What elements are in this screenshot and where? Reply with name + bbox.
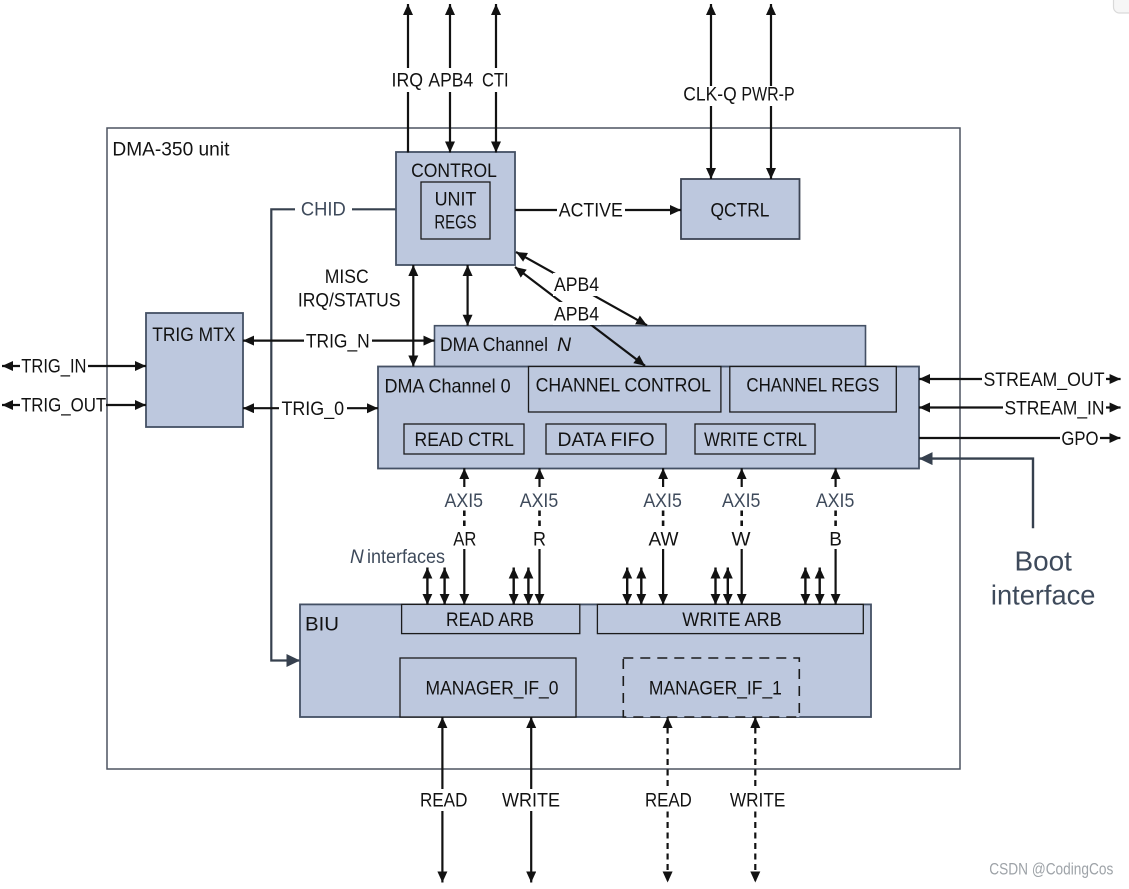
block WRITE CTRL xyxy=(695,424,815,454)
scrollbar stub top right xyxy=(1114,0,1129,13)
svg-text:IRQ/STATUS: IRQ/STATUS xyxy=(298,291,401,312)
block QCTRL xyxy=(681,179,800,239)
label WRITE ARB xyxy=(682,609,781,631)
label BIU xyxy=(305,615,339,636)
block MANAGER_IF_1 (dashed) xyxy=(623,658,799,717)
svg-text:WRITE: WRITE xyxy=(730,791,785,812)
wire Boot interface (into DMA Channel 0) xyxy=(919,459,1033,529)
wire APB4 diagonal to DMA Channel N xyxy=(516,252,647,325)
svg-text:CONTROL: CONTROL xyxy=(411,161,497,182)
wire TRIG_N (TRIG MTX to DMA Channel N) xyxy=(243,340,435,342)
svg-text:W: W xyxy=(732,530,751,551)
svg-text:IRQ: IRQ xyxy=(392,70,424,91)
wire CONTROL to DMA Channel N (double arrow) xyxy=(467,265,469,326)
wire AXI5 R down arrow into arbiter xyxy=(538,549,540,605)
label W xyxy=(732,530,751,551)
svg-text:interface: interface xyxy=(991,579,1096,610)
label MANAGER_IF_0 xyxy=(426,677,559,699)
svg-text:READ: READ xyxy=(645,791,692,812)
wire AXI5 AW dashed segment xyxy=(662,511,665,527)
svg-text:B: B xyxy=(829,530,842,551)
wire TRIG_IN xyxy=(2,365,146,367)
label READ ARB xyxy=(446,609,534,631)
block WRITE ARB xyxy=(597,604,863,633)
wire AXI5 B up arrow into channel xyxy=(834,468,836,487)
block CHANNEL CONTROL xyxy=(529,367,721,413)
label PWR-P xyxy=(740,85,796,107)
outer frame DMA-350 unit xyxy=(107,128,960,769)
svg-text:REGS: REGS xyxy=(434,213,476,234)
label CHID xyxy=(295,199,352,221)
label B xyxy=(829,530,842,551)
label AXI5 (AW column) xyxy=(643,491,682,512)
wire IRQ (up arrow) xyxy=(407,4,409,153)
svg-text:ACTIVE: ACTIVE xyxy=(559,201,623,222)
label TRIG_OUT xyxy=(20,394,107,416)
block DMA Channel 0 xyxy=(378,367,919,469)
svg-text:WRITE ARB: WRITE ARB xyxy=(682,609,781,631)
label ACTIVE xyxy=(557,199,625,222)
svg-text:QCTRL: QCTRL xyxy=(711,201,770,222)
wire AXI5 AW up arrow into channel xyxy=(662,468,664,487)
svg-text:MISC: MISC xyxy=(325,267,369,288)
wire AXI5 R up arrow into channel xyxy=(538,468,540,487)
svg-text:DMA Channel 0: DMA Channel 0 xyxy=(385,375,511,397)
svg-text:N: N xyxy=(350,547,364,568)
block READ ARB xyxy=(402,604,580,633)
svg-text:TRIG_IN: TRIG_IN xyxy=(21,356,86,377)
wire AXI5 AR down arrow into arbiter xyxy=(463,549,465,605)
label WRITE CTRL xyxy=(704,429,807,451)
wire READ dashed (MANAGER_IF_1) xyxy=(666,717,668,883)
wire MISC IRQ/STATUS (CONTROL to DMA Channel 0) xyxy=(412,265,414,367)
label CLK-Q xyxy=(682,85,738,107)
svg-text:CHANNEL REGS: CHANNEL REGS xyxy=(746,374,879,396)
label AXI5 (W column) xyxy=(722,491,761,512)
svg-text:N: N xyxy=(557,334,572,356)
label GPO xyxy=(1060,427,1100,450)
label AXI5 (R column) xyxy=(520,491,559,512)
svg-text:READ CTRL: READ CTRL xyxy=(415,429,514,451)
wire AXI5 W down arrow into arbiter xyxy=(741,549,743,605)
svg-text:AXI5: AXI5 xyxy=(520,491,559,512)
svg-text:CSDN @CodingCos: CSDN @CodingCos xyxy=(989,861,1113,879)
svg-text:UNIT: UNIT xyxy=(435,190,477,211)
label CHANNEL REGS xyxy=(746,374,879,396)
label AR xyxy=(453,530,476,551)
label QCTRL xyxy=(711,201,770,222)
wire PWR-P (double arrow) xyxy=(770,4,772,179)
label WRITE dashed xyxy=(729,789,786,812)
watermark CSDN @CodingCos xyxy=(989,861,1113,879)
wire AXI5 W dashed segment xyxy=(740,511,743,527)
svg-text:CHANNEL CONTROL: CHANNEL CONTROL xyxy=(536,374,712,396)
wire AXI5 AR up arrow into channel xyxy=(463,468,465,487)
block UNIT REGS xyxy=(421,182,490,239)
wire AXI5 AR dashed segment xyxy=(463,511,466,527)
wire TRIG_OUT xyxy=(2,404,146,406)
label AW xyxy=(649,530,679,551)
label AXI5 (AR column) xyxy=(445,491,484,512)
label CTI xyxy=(479,68,512,92)
wire WRITE dashed (MANAGER_IF_1) xyxy=(754,717,756,883)
svg-text:READ: READ xyxy=(420,791,468,812)
label UNIT REGS xyxy=(434,190,476,234)
svg-text:MANAGER_IF_1: MANAGER_IF_1 xyxy=(649,677,782,699)
label N interfaces xyxy=(350,547,445,568)
label READ CTRL xyxy=(415,429,514,451)
label CHANNEL CONTROL xyxy=(536,374,712,396)
svg-text:CLK-Q: CLK-Q xyxy=(683,85,736,106)
wire R extra channel arrows (N interfaces) xyxy=(514,568,529,605)
wire ACTIVE (CONTROL to QCTRL) xyxy=(515,209,681,211)
label TRIG_IN xyxy=(20,355,88,377)
wire AXI5 B down arrow into arbiter xyxy=(834,549,836,605)
wire CLK-Q (double arrow) xyxy=(710,4,712,179)
svg-text:STREAM_OUT: STREAM_OUT xyxy=(983,370,1104,391)
block DATA FIFO xyxy=(546,424,666,454)
svg-text:PWR-P: PWR-P xyxy=(741,85,794,106)
svg-text:TRIG_0: TRIG_0 xyxy=(281,399,344,420)
svg-text:MANAGER_IF_0: MANAGER_IF_0 xyxy=(426,677,559,699)
block BIU xyxy=(300,604,871,717)
svg-text:R: R xyxy=(533,530,546,551)
label AXI5 (B column) xyxy=(816,491,855,512)
block MANAGER_IF_0 xyxy=(400,658,576,717)
wire AXI5 B dashed segment xyxy=(834,511,837,527)
svg-text:interfaces: interfaces xyxy=(367,547,445,568)
svg-text:DMA-350 unit: DMA-350 unit xyxy=(112,139,230,160)
svg-text:CTI: CTI xyxy=(482,70,509,91)
svg-text:AXI5: AXI5 xyxy=(722,491,761,512)
label STREAM_IN xyxy=(1003,396,1106,419)
svg-text:CHID: CHID xyxy=(301,199,346,220)
wire AXI5 AW down arrow into arbiter xyxy=(662,549,664,605)
block TRIG MTX xyxy=(146,313,243,427)
label MANAGER_IF_1 xyxy=(649,677,782,699)
label APB4 diag 2 xyxy=(553,302,601,325)
label APB4 diag 1 xyxy=(553,273,601,296)
wire APB4 top (double arrow) xyxy=(449,4,451,153)
svg-text:TRIG_OUT: TRIG_OUT xyxy=(21,395,107,416)
svg-text:BIU: BIU xyxy=(305,615,339,636)
label READ dashed xyxy=(644,789,693,812)
label DMA Channel N xyxy=(440,334,572,356)
block CHANNEL REGS xyxy=(730,367,897,413)
svg-text:AR: AR xyxy=(453,530,476,551)
svg-text:APB4: APB4 xyxy=(554,275,599,296)
label DATA FIFO xyxy=(558,429,655,451)
block CONTROL xyxy=(396,152,515,265)
wire B extra channel arrows (N interfaces) xyxy=(805,568,819,605)
svg-text:TRIG MTX: TRIG MTX xyxy=(152,325,235,346)
wire GPO xyxy=(919,437,1120,439)
label STREAM_OUT xyxy=(982,368,1106,391)
label DMA-350 unit xyxy=(112,139,230,160)
svg-text:WRITE CTRL: WRITE CTRL xyxy=(704,429,807,451)
wire W extra channel arrows (N interfaces) xyxy=(716,568,728,605)
wire CHID net (CONTROL to BIU) xyxy=(271,209,395,660)
wire AW extra channel arrows (N interfaces) xyxy=(627,568,641,605)
label MISC IRQ/STATUS xyxy=(298,267,401,312)
wire AXI5 R dashed segment xyxy=(538,511,541,527)
svg-text:AXI5: AXI5 xyxy=(643,491,682,512)
label TRIG_0 xyxy=(279,397,347,420)
svg-text:DATA FIFO: DATA FIFO xyxy=(558,429,655,451)
svg-text:AXI5: AXI5 xyxy=(445,491,484,512)
label TRIG_N xyxy=(304,330,372,352)
svg-text:READ ARB: READ ARB xyxy=(446,609,534,631)
label TRIG MTX xyxy=(152,325,235,346)
svg-text:GPO: GPO xyxy=(1061,429,1098,450)
block DMA Channel N xyxy=(435,326,866,368)
svg-text:AXI5: AXI5 xyxy=(816,491,855,512)
wire STREAM_OUT xyxy=(919,378,1121,380)
label CONTROL xyxy=(411,161,497,182)
svg-text:APB4: APB4 xyxy=(554,304,599,325)
label WRITE solid xyxy=(502,789,561,812)
svg-text:AW: AW xyxy=(649,530,679,551)
svg-text:Boot: Boot xyxy=(1015,546,1073,577)
wire READ (MANAGER_IF_0) xyxy=(441,717,443,883)
svg-text:TRIG_N: TRIG_N xyxy=(306,331,370,352)
label Boot interface xyxy=(991,546,1096,611)
label IRQ xyxy=(389,68,426,92)
label APB4 top xyxy=(426,68,476,92)
svg-text:APB4: APB4 xyxy=(428,70,473,91)
label DMA Channel 0 xyxy=(385,375,511,397)
svg-text:WRITE: WRITE xyxy=(502,791,560,812)
label R xyxy=(533,530,546,551)
wire STREAM_IN xyxy=(919,406,1121,408)
block READ CTRL xyxy=(404,424,524,454)
wire AR extra channel arrows (N interfaces) xyxy=(427,568,444,605)
wire TRIG_0 (TRIG MTX to DMA Channel 0) xyxy=(243,407,378,409)
svg-text:STREAM_IN: STREAM_IN xyxy=(1004,398,1104,419)
wire AXI5 W up arrow into channel xyxy=(741,468,743,487)
wire APB4 diagonal to CHANNEL CONTROL xyxy=(515,267,645,366)
svg-text:DMA Channel: DMA Channel xyxy=(440,334,548,356)
wire CTI (double arrow) xyxy=(495,4,497,153)
label READ solid xyxy=(419,789,469,812)
wire WRITE (MANAGER_IF_0) xyxy=(530,717,532,883)
